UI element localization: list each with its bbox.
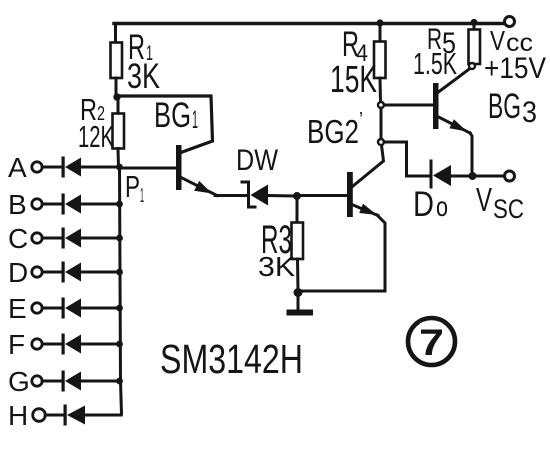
node junction row A on bus (116, 164, 123, 171)
node R5 bottom junction circle (469, 63, 475, 69)
svg-text:3: 3 (522, 96, 537, 129)
svg-text:F: F (8, 329, 25, 360)
terminal Vcc top right (505, 17, 515, 27)
node junction row C on bus (116, 235, 123, 242)
diode Do (431, 161, 469, 187)
svg-text:D: D (8, 257, 28, 288)
node junction top of R4 (376, 19, 383, 26)
wire BG1 collector loop (117, 96, 213, 153)
svg-text:+15V: +15V (484, 52, 546, 85)
svg-text:o: o (436, 191, 448, 222)
svg-text:BG2: BG2 (307, 113, 359, 150)
wire to Vsc terminal (473, 175, 505, 178)
wire BG3 base (384, 104, 433, 107)
resistor R1 (111, 24, 123, 96)
wire BG2 base (297, 194, 347, 197)
transistor BG2 (300, 145, 385, 291)
terminal Vsc (505, 171, 515, 181)
resistor R3 (292, 196, 304, 291)
diode input row B (42, 194, 119, 215)
svg-text:3K: 3K (258, 251, 295, 282)
zener diode DW (242, 182, 294, 207)
svg-text:BG: BG (154, 96, 191, 135)
svg-text:D: D (413, 185, 434, 224)
node junction BG3 emitter Do Vsc (469, 172, 477, 180)
wire BG1 base (120, 167, 176, 170)
resistor R2 (113, 97, 125, 167)
svg-text:7: 7 (419, 322, 444, 363)
diode input row C (42, 228, 119, 249)
svg-text:H: H (8, 400, 28, 431)
diode input row A (42, 157, 119, 178)
wire top power rail (114, 22, 505, 25)
node junction row B on bus (116, 201, 123, 208)
wire left input bus (120, 167, 122, 414)
svg-text:1.5K: 1.5K (413, 46, 457, 81)
node BG3 base junction circle (378, 102, 384, 108)
node junction row G on bus (116, 378, 123, 385)
diode input row E (42, 298, 119, 319)
wire Do branch from BG2 collector node (384, 142, 429, 176)
wire between node circles (380, 108, 383, 139)
figure number circled 7 (408, 318, 455, 365)
svg-text:’: ’ (359, 109, 363, 131)
node junction row E on bus (116, 305, 123, 312)
transistor BG3 (433, 69, 472, 174)
node junction row D on bus (116, 269, 123, 276)
node junction row F on bus (116, 341, 123, 348)
svg-text:C: C (8, 223, 28, 254)
node junction top of R5 (470, 19, 477, 26)
transistor BG1 (176, 145, 217, 196)
resistor R4 (374, 23, 386, 102)
svg-text:15K: 15K (330, 59, 377, 101)
svg-text:A: A (8, 152, 27, 183)
svg-text:BG: BG (488, 87, 521, 126)
svg-text:1: 1 (140, 185, 144, 207)
diode input row G (42, 371, 119, 392)
svg-text:DW: DW (236, 144, 279, 177)
node BG2 collector junction circle (378, 139, 384, 145)
node junction R3 ground BG2 emitter (294, 288, 303, 297)
node junction DW R3 BG2 base (293, 192, 301, 200)
ground (287, 294, 314, 316)
resistor R5 (469, 23, 481, 65)
svg-text:SM3142H: SM3142H (160, 336, 303, 382)
svg-text:G: G (8, 366, 30, 397)
node junction R1 R2 BG1 collector (113, 93, 120, 100)
svg-text:B: B (8, 189, 27, 220)
svg-text:12K: 12K (78, 119, 114, 154)
svg-text:1: 1 (192, 106, 198, 134)
diode input row F (42, 334, 119, 355)
svg-text:V: V (476, 181, 492, 218)
svg-text:P: P (125, 169, 140, 204)
svg-text:3K: 3K (127, 57, 160, 96)
svg-text:E: E (8, 293, 27, 324)
svg-text:SC: SC (493, 194, 524, 224)
diode input row H (45, 405, 121, 426)
wire BG1 emitter to DW (215, 194, 247, 197)
diode input row D (42, 262, 119, 283)
